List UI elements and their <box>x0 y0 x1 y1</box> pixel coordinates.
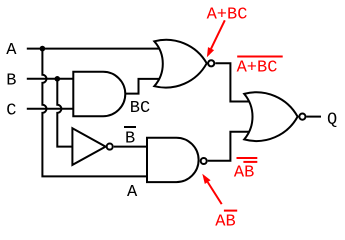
label B-bar overline <box>124 126 136 128</box>
wire C input <box>27 108 76 110</box>
red arrow to NOR U2 bubble <box>207 20 225 57</box>
svg-text:AB: AB <box>234 163 254 182</box>
inverter U3 <box>72 128 105 165</box>
svg-text:A+BC: A+BC <box>237 59 278 78</box>
wire NAND output up to NOR U5 bottom input <box>208 132 250 161</box>
wire inverter output to NAND input <box>114 146 149 148</box>
node A junction dot <box>40 46 46 52</box>
wire NOR U2 output down to NOR U5 top input <box>215 63 250 101</box>
inverter U3 output bubble <box>107 144 113 150</box>
node B junction dot <box>55 76 61 82</box>
svg-text:AB: AB <box>215 213 235 232</box>
NOR gate U2 output bubble <box>208 60 214 66</box>
svg-text:C: C <box>6 101 16 120</box>
red label A+BC with overline at NOR U2 output <box>237 57 283 78</box>
NOR gate U5 <box>244 92 297 141</box>
svg-text:BC: BC <box>130 99 150 118</box>
wire output Q <box>307 116 322 118</box>
NOR gate U5 output bubble <box>299 114 305 120</box>
AND gate U1 <box>73 72 125 116</box>
wire A input <box>27 48 162 50</box>
red label AB with double overline at NAND output <box>234 158 257 182</box>
red arrow to NAND U4 bubble <box>202 174 221 204</box>
svg-text:B: B <box>125 129 135 148</box>
wire BC output step to NOR U2 input <box>125 79 162 94</box>
NAND gate U4 output bubble <box>201 158 207 164</box>
svg-text:Q: Q <box>327 110 337 129</box>
svg-text:A: A <box>127 183 138 202</box>
svg-text:B: B <box>6 71 16 90</box>
NAND gate U4 <box>147 138 199 182</box>
wire B input <box>27 78 76 80</box>
NOR gate U2 <box>154 40 206 88</box>
svg-text:A+BC: A+BC <box>207 5 248 24</box>
wire A vertical drop with hops over B and C, to NAND input <box>42 49 149 177</box>
svg-text:A: A <box>6 41 17 60</box>
red label AB-bar bottom annotation <box>215 211 237 232</box>
wire B drop to inverter with hop over C <box>57 79 74 147</box>
